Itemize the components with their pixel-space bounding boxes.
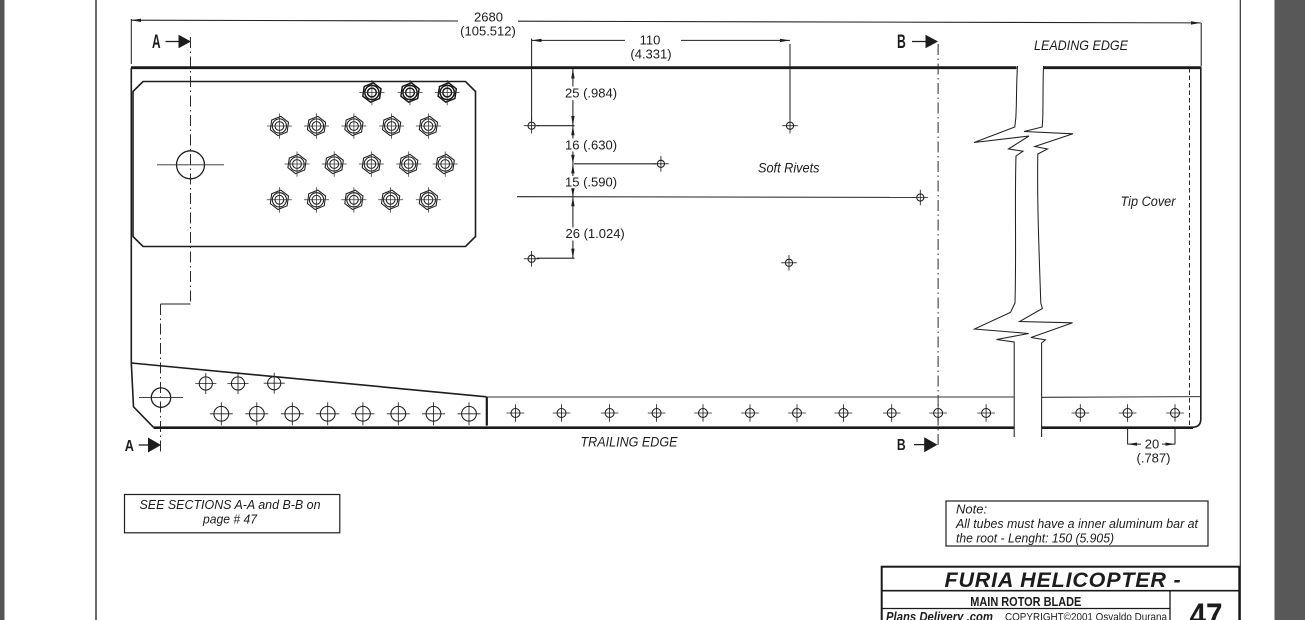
- hex bolt row3 b3: [341, 187, 366, 212]
- svg-text:SEE SECTIONS A-A and B-B on: SEE SECTIONS A-A and B-B on: [140, 497, 321, 512]
- hex bolt row1 b4: [379, 114, 404, 139]
- svg-text:the root - Lenght: 150 (5.905): the root - Lenght: 150 (5.905): [956, 530, 1114, 545]
- vertical dim chain line 25: [572, 69, 574, 126]
- dimension 2680 arrow right: [1191, 21, 1201, 24]
- dimension 20 line: [1128, 443, 1175, 445]
- dimension 110 arrow left: [532, 39, 542, 42]
- blade taper top line: [131, 363, 486, 397]
- blade right edge (tip): [1192, 67, 1201, 428]
- blade left edge: [130, 68, 132, 363]
- hex bolt row3 b1: [267, 187, 292, 212]
- svg-text:Note:: Note:: [956, 502, 987, 517]
- svg-text:TRAILING EDGE: TRAILING EDGE: [581, 434, 679, 450]
- taper hole l7: [422, 402, 445, 425]
- taper hole l5: [351, 402, 374, 425]
- taper hole u3: [264, 373, 285, 394]
- svg-text:110: 110: [640, 33, 661, 48]
- hex bolt row3 b5: [416, 187, 441, 212]
- section line A-A dash-dot lower: [160, 304, 162, 452]
- dimension 110 ext left: [531, 39, 533, 122]
- vertical dim chain line 16: [572, 126, 574, 164]
- note box: [946, 501, 1208, 546]
- svg-text:All tubes must have a inner al: All tubes must have a inner aluminum bar…: [955, 516, 1199, 531]
- taper hole l3: [281, 402, 304, 425]
- root bottom hole big: [151, 388, 170, 407]
- svg-text:A: A: [152, 32, 161, 53]
- svg-text:page # 47: page # 47: [202, 512, 258, 527]
- right dark margin bar: [1275, 0, 1305, 620]
- vertical dim chain line 15: [572, 164, 574, 197]
- svg-text:COPYRIGHT©2001 Osvaldo Durana: COPYRIGHT©2001 Osvaldo Durana: [1005, 611, 1168, 620]
- dimension 110 line: [532, 39, 790, 41]
- strip rivet 8: [835, 404, 853, 422]
- hex bolt row0 b3: [435, 80, 460, 105]
- soft rivet 6: [781, 255, 797, 271]
- svg-text:16 (.630): 16 (.630): [565, 138, 617, 153]
- taper hole l1: [210, 402, 233, 425]
- svg-text:(4.331): (4.331): [630, 47, 671, 62]
- tip cover dashed line: [1189, 68, 1191, 426]
- soft rivet 3: [653, 156, 669, 172]
- hex bolt row0 b2: [398, 80, 423, 105]
- strip rivet 12: [1072, 404, 1090, 422]
- strip rivet 5: [694, 404, 712, 422]
- svg-text:Tip Cover: Tip Cover: [1121, 194, 1176, 209]
- strip rivet 13: [1119, 404, 1137, 422]
- soft rivet 5: [524, 251, 540, 267]
- hex bolt row1 b5: [416, 114, 441, 139]
- strip rivet 11: [977, 404, 995, 422]
- section line B-B dash-dot: [937, 44, 939, 448]
- svg-text:15 (.590): 15 (.590): [565, 175, 617, 190]
- dimension 2680 arrow left: [131, 19, 141, 22]
- strip rivet 3: [601, 404, 619, 422]
- strip rivet 10: [929, 404, 947, 422]
- title block outer box: [882, 567, 1240, 620]
- root bottom hole centerline: [139, 397, 183, 399]
- section marker B bottom arrow: [914, 444, 925, 446]
- hex bolt row2 b1: [285, 152, 310, 177]
- taper end vertical: [486, 397, 488, 426]
- soft rivet 1: [524, 118, 540, 134]
- trailing strip top line: [487, 396, 1200, 399]
- svg-text:B: B: [897, 32, 906, 53]
- strip rivet 1: [507, 404, 525, 422]
- strip rivet 6: [741, 404, 759, 422]
- root bolt hole circle: [177, 151, 205, 179]
- hex bolt row2 b5: [433, 152, 458, 177]
- strip rivet 4: [648, 404, 666, 422]
- page edge line right: [1239, 0, 1241, 620]
- svg-text:(.787): (.787): [1137, 450, 1171, 465]
- hex bolt row2 b2: [322, 152, 347, 177]
- left dark margin bar: [0, 0, 5, 620]
- taper hole l6: [387, 402, 410, 425]
- hex bolt row3 b4: [378, 187, 403, 212]
- dimension 20 arrows: [1128, 443, 1137, 446]
- taper hole l2: [245, 402, 268, 425]
- title block vertical divider: [1169, 591, 1171, 620]
- svg-text:Soft Rivets: Soft Rivets: [758, 161, 820, 176]
- dimension 2680 extension right: [1200, 23, 1202, 66]
- soft rivet 4: [913, 190, 929, 206]
- svg-text:47: 47: [1190, 597, 1223, 620]
- hex bolt row3 b2: [304, 187, 329, 212]
- dimension 20 ext lines: [1128, 429, 1175, 445]
- hex bolt row2 b4: [396, 152, 421, 177]
- dimension 110 ext right: [789, 44, 791, 121]
- root doubler plate: [133, 82, 476, 247]
- svg-text:LEADING EDGE: LEADING EDGE: [1034, 37, 1129, 53]
- svg-text:Plans Delivery .com: Plans Delivery .com: [886, 609, 993, 620]
- svg-text:25 (.984): 25 (.984): [565, 86, 617, 101]
- strip rivet 7: [788, 404, 806, 422]
- hex bolt row1 b1: [267, 114, 292, 139]
- svg-text:26 (1.024): 26 (1.024): [566, 226, 625, 241]
- svg-text:20: 20: [1145, 436, 1159, 451]
- title block line under subtitle: [882, 608, 1170, 610]
- svg-text:A: A: [125, 438, 134, 455]
- break line right: [1020, 66, 1073, 437]
- soft rivet 2: [782, 118, 798, 134]
- taper hole u1: [195, 373, 216, 394]
- taper hole u2: [228, 373, 249, 394]
- strip rivet 2: [553, 404, 571, 422]
- strip rivet 14: [1166, 404, 1184, 422]
- break line left: [974, 66, 1029, 437]
- connector line rivet r2: [574, 163, 657, 165]
- section marker A bottom arrow: [139, 444, 150, 446]
- connector line rivet r4: [537, 257, 575, 259]
- title block line under title: [882, 590, 1240, 592]
- hex bolt row1 b2: [304, 114, 329, 139]
- blade bottom-left corner: [131, 363, 153, 427]
- blade bottom edge: [154, 426, 1194, 429]
- vertical dim chain line 26: [572, 197, 574, 259]
- page edge line left: [95, 0, 97, 620]
- hex bolt row0 b1: [359, 80, 384, 105]
- taper hole l8: [458, 402, 481, 425]
- dimension 2680 line: [131, 20, 1201, 23]
- strip rivet 9: [883, 404, 901, 422]
- dimension 110 arrow right: [780, 39, 790, 42]
- svg-text:MAIN ROTOR BLADE: MAIN ROTOR BLADE: [970, 595, 1081, 609]
- svg-text:(105.512): (105.512): [460, 23, 516, 38]
- section marker B top arrow: [912, 41, 926, 43]
- root hole centerline: [157, 164, 224, 166]
- long connector line row3: [517, 196, 916, 199]
- section line A-A dash-dot upper: [190, 37, 192, 304]
- taper hole l4: [316, 402, 339, 425]
- section line A-A jog: [161, 303, 191, 305]
- section marker A top arrow: [166, 41, 181, 43]
- hex bolt row2 b3: [359, 152, 384, 177]
- see sections box: [125, 495, 340, 533]
- svg-text:B: B: [897, 437, 906, 454]
- hex bolt row1 b3: [341, 114, 366, 139]
- connector line rivet r1: [537, 125, 575, 127]
- dimension 2680 extension line left: [130, 19, 132, 64]
- svg-text:2680: 2680: [474, 9, 503, 24]
- svg-text:FURIA HELICOPTER -: FURIA HELICOPTER -: [945, 568, 1182, 592]
- blade top edge: [131, 66, 1201, 69]
